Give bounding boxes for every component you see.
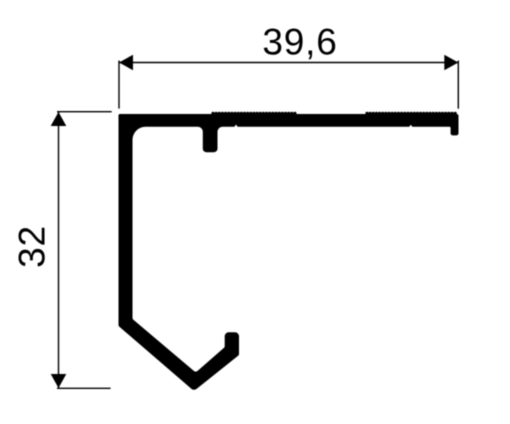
svg-text:39,6: 39,6 [262, 21, 337, 62]
extension line right of 39,6 [457, 61, 459, 109]
serration base strip 1 [212, 113, 296, 116]
arrow bottom of 32 [51, 374, 67, 388]
serration base strip 2 [366, 113, 456, 116]
extension line left of 39,6 [118, 61, 120, 109]
arrow right of 39,6 [444, 55, 458, 70]
profile outline [118, 114, 458, 390]
notch marker left [234, 125, 238, 128]
svg-text:32: 32 [12, 225, 53, 268]
extension line bottom of 32 [57, 387, 111, 389]
serration band 1 [211, 112, 296, 115]
extension line top of 32 [57, 111, 112, 113]
dimension line 39,6 [119, 62, 458, 64]
arrow top of 32 [51, 112, 67, 126]
dimension line 32 [58, 112, 60, 388]
notch marker right [409, 125, 413, 128]
arrow left of 39,6 [119, 55, 133, 70]
serration band 2 [365, 112, 456, 115]
